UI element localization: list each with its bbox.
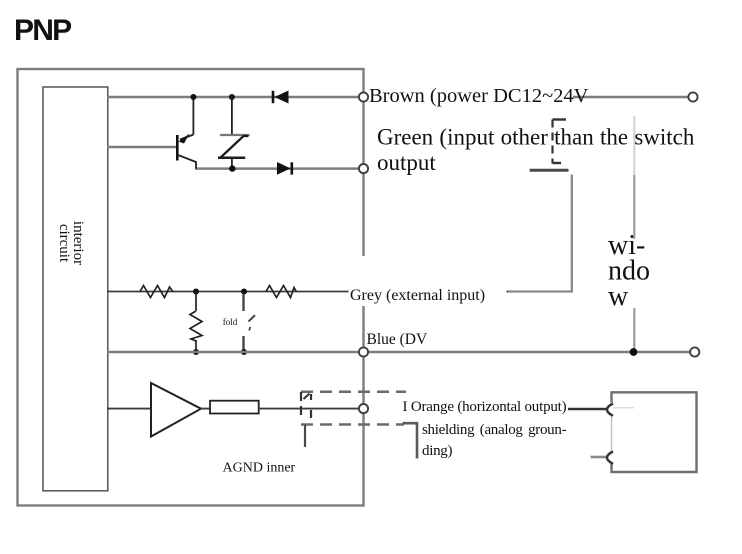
wire: shield stub to connector <box>591 456 607 459</box>
shield dashed box top <box>301 391 406 394</box>
resistor R3 box <box>210 401 259 414</box>
shield dashed divider <box>310 394 312 400</box>
node: junction fold bottom <box>241 349 247 355</box>
node: top wire junction at emitter <box>190 94 196 100</box>
zener diode D1 top bar <box>220 134 250 136</box>
diode D3 cathode bar <box>290 162 293 174</box>
wire: transistor base <box>107 146 177 149</box>
terminal: black output <box>359 164 368 173</box>
svg-text:I Orange (horizontal output): I Orange (horizontal output) <box>403 399 567 415</box>
zener diode D1 Z stroke <box>221 136 249 158</box>
outer case box <box>18 69 364 506</box>
diode D2 on supply wire <box>275 91 289 104</box>
interior circuit block <box>43 87 108 491</box>
shield drain elbow <box>403 423 418 458</box>
shield ground stub <box>304 425 306 448</box>
shield corner mark <box>304 394 310 400</box>
wire: external switch horizontal <box>508 290 573 292</box>
node: junction R1/R2 top <box>193 289 199 295</box>
svg-text:fold: fold <box>223 317 238 327</box>
wire: top supply (brown) <box>107 96 693 99</box>
transistor Q1 base bar <box>176 135 179 161</box>
wire: grey external input <box>107 291 573 293</box>
node: junction R2 bottom <box>193 349 199 355</box>
external switch dashed bracket <box>551 120 553 164</box>
terminal: brown <box>359 92 368 101</box>
svg-text:ding): ding) <box>422 443 452 459</box>
zener diode D1 lead top <box>231 97 233 135</box>
wire: orange to connector <box>568 408 606 410</box>
svg-text:shielding (analog groun-: shielding (analog groun- <box>422 422 567 438</box>
resistor R4 <box>266 286 296 298</box>
svg-text:output: output <box>377 150 436 175</box>
external switch plate <box>530 169 569 172</box>
node: top wire junction at zener <box>229 94 235 100</box>
op-amp buffer A1 <box>151 383 201 437</box>
wire: blue 0V <box>107 351 695 354</box>
fold dashed switch <box>242 294 244 312</box>
wire: buffer to resistor <box>201 408 210 410</box>
diode D2 on supply wire cathode bar <box>272 91 275 103</box>
svg-text:PNP: PNP <box>14 14 71 47</box>
transistor Q1 emitter lead <box>192 97 194 135</box>
external switch dashed bracket bottom tick <box>553 162 562 164</box>
white mask under Grey label <box>349 256 507 306</box>
white mask under Brown label <box>366 85 573 106</box>
wire: external switch vertical <box>571 175 573 292</box>
shield dashed box left edge <box>300 392 302 419</box>
svg-text:w: w <box>608 281 629 312</box>
svg-text:Green (input other than the sw: Green (input other than the switch <box>377 125 695 150</box>
svg-text:AGND inner: AGND inner <box>223 461 296 476</box>
wire: window vertical <box>633 175 635 352</box>
zener diode D1 bottom bar <box>218 156 245 159</box>
connector crescent bottom <box>607 452 613 464</box>
wire: analog output <box>107 408 151 410</box>
terminal: orange <box>359 404 368 413</box>
terminal: blue <box>359 347 368 356</box>
wire: switch output (black) <box>195 167 364 170</box>
transistor Q1 collector lead <box>178 155 196 169</box>
svg-text:circuit: circuit <box>56 224 72 263</box>
connector crescent top <box>607 404 613 416</box>
meter box left edge middle <box>611 417 613 452</box>
resistor R2 <box>190 311 202 341</box>
svg-text:Brown (power DC12~24V: Brown (power DC12~24V <box>369 85 589 107</box>
zener diode D1 lead bottom <box>231 158 233 169</box>
external switch dashed bracket top tick <box>553 118 567 120</box>
svg-text:Grey (external input): Grey (external input) <box>350 287 485 304</box>
node: junction fold top <box>241 289 247 295</box>
wire: resistor to orange terminal <box>259 408 364 410</box>
transistor Q1 emitter arrow <box>179 134 190 144</box>
wire: window vertical light <box>633 116 635 175</box>
shield dashed box bottom <box>301 423 404 426</box>
meter box inner light line <box>613 407 634 409</box>
resistor R2 vertical leads <box>195 292 197 312</box>
diode D3 on output wire <box>277 162 291 175</box>
resistor R1 <box>140 286 173 298</box>
terminal: brown right <box>688 92 697 101</box>
node: output wire junction at zener <box>229 165 235 171</box>
terminal: blue right <box>690 347 699 356</box>
svg-text:Blue (DV: Blue (DV <box>367 331 429 348</box>
node: blue/window junction <box>630 348 638 356</box>
white mask under window label <box>604 239 659 308</box>
meter box <box>612 392 697 472</box>
